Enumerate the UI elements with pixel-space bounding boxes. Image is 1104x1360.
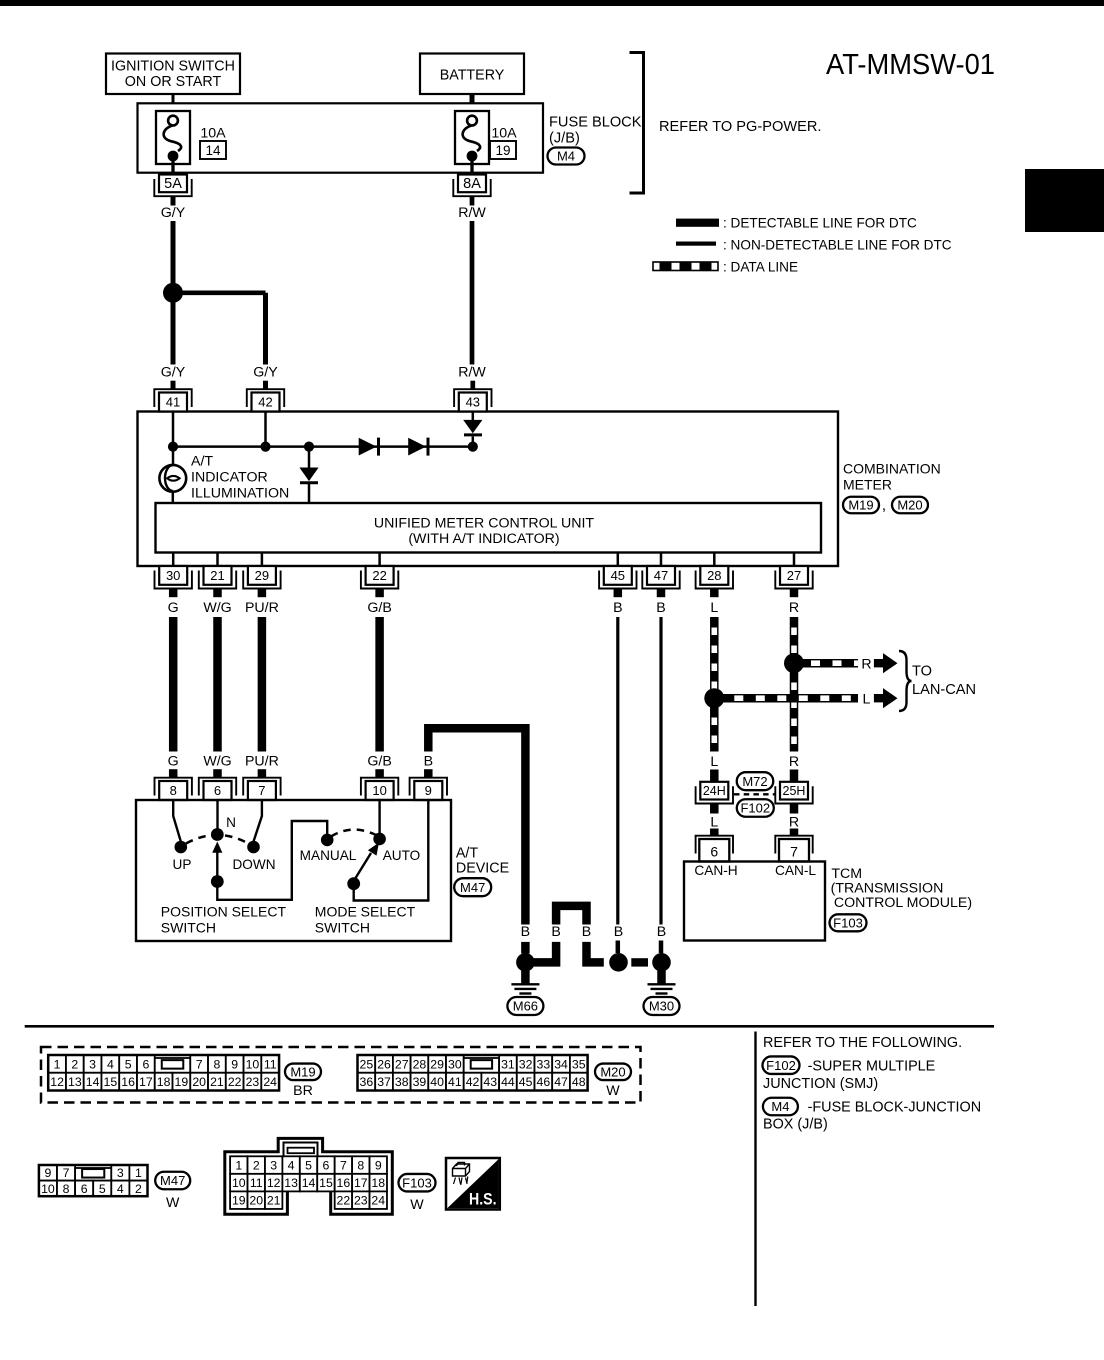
svg-text:G/Y: G/Y [161,365,186,381]
svg-text:41: 41 [448,1075,462,1089]
svg-text:17: 17 [354,1176,368,1190]
svg-text:M30: M30 [649,999,674,1014]
TCM pin 7 [790,829,799,837]
svg-text:M4: M4 [771,1099,789,1114]
svg-text:3: 3 [89,1057,96,1071]
connector M72 oval [737,772,774,790]
svg-text:2: 2 [135,1182,142,1196]
wire pin6 to N [216,800,218,829]
svg-text:N: N [226,815,236,830]
diode at pin 43 [472,412,475,421]
fuse 10A 14 [156,111,190,164]
svg-text:24: 24 [263,1075,277,1089]
wire B pin47 [659,617,662,925]
svg-text:48: 48 [572,1075,586,1089]
H.S. mark [446,1158,500,1210]
svg-text:36: 36 [360,1075,374,1089]
svg-text:R/W: R/W [458,365,486,381]
pin 22 [361,571,398,589]
svg-text:16: 16 [121,1075,135,1089]
svg-text:B: B [656,600,665,616]
svg-text:8: 8 [357,1159,364,1173]
svg-text:CONTROL MODULE): CONTROL MODULE) [834,895,972,911]
svg-text:15: 15 [104,1075,118,1089]
svg-text:39: 39 [413,1075,427,1089]
svg-text:9: 9 [45,1166,52,1180]
junction dot L [704,688,724,708]
svg-text:24H: 24H [703,784,726,798]
svg-text:14: 14 [205,143,221,158]
series diode 1 [359,438,377,456]
svg-text:R: R [861,657,871,673]
wire pin8 to UP [173,800,181,842]
svg-text:6: 6 [710,844,718,860]
svg-text:10: 10 [232,1176,246,1190]
legend non-detectable line [676,242,716,246]
staircase bridge [556,906,586,925]
svg-text:MODE SELECT: MODE SELECT [315,904,416,920]
combination meter box [138,412,839,567]
svg-text:G: G [168,600,179,616]
svg-text:F102: F102 [766,1058,796,1073]
junction dots on bus [168,442,178,452]
svg-text:1: 1 [135,1166,142,1180]
svg-text:R: R [789,600,799,616]
svg-text:20: 20 [249,1194,263,1208]
svg-text:9: 9 [425,783,432,798]
pin 28 [696,571,733,589]
connector 8A [453,179,490,196]
svg-text:4: 4 [117,1182,124,1196]
svg-text:W/G: W/G [203,754,231,770]
svg-text:18: 18 [371,1176,385,1190]
svg-text:G: G [168,754,179,770]
connector M20 oval [595,1064,631,1081]
svg-text:M19: M19 [290,1064,315,1079]
pin 9 [424,769,433,778]
svg-text:10: 10 [246,1057,260,1071]
svg-text:JUNCTION (SMJ): JUNCTION (SMJ) [763,1076,878,1092]
svg-text:45: 45 [519,1075,533,1089]
svg-text:BATTERY: BATTERY [440,68,505,84]
svg-text:INDICATOR: INDICATOR [191,470,268,486]
ignition switch box [106,54,240,95]
connector F102 oval [737,799,774,817]
svg-text:-SUPER MULTIPLE: -SUPER MULTIPLE [808,1059,936,1075]
svg-text:3: 3 [270,1159,277,1173]
svg-text:BR: BR [293,1083,313,1099]
pin 8 [169,769,178,778]
svg-text:(TRANSMISSION: (TRANSMISSION [831,881,944,897]
svg-text:7: 7 [340,1159,347,1173]
svg-text:REFER TO THE FOLLOWING.: REFER TO THE FOLLOWING. [763,1035,962,1051]
svg-text:6: 6 [142,1057,149,1071]
mode dashed arc [331,830,376,837]
svg-text:-FUSE BLOCK-JUNCTION: -FUSE BLOCK-JUNCTION [808,1100,982,1116]
ground junction M66 [516,953,535,972]
svg-text:CAN-H: CAN-H [694,863,737,878]
svg-text:10A: 10A [491,126,517,142]
svg-text:22: 22 [228,1075,242,1089]
meter internal pin leads [172,553,175,567]
svg-text:B: B [657,924,666,940]
svg-text:W/G: W/G [203,600,231,616]
connector M19 grid [48,1055,66,1073]
junction dot R [784,653,804,673]
svg-text:7: 7 [790,844,798,860]
svg-text:M66: M66 [513,999,538,1014]
pin 6 [213,769,222,778]
pin 47 [642,571,679,589]
svg-text:ILLUMINATION: ILLUMINATION [191,486,289,502]
svg-text:UNIFIED METER CONTROL UNIT: UNIFIED METER CONTROL UNIT [374,516,595,532]
svg-text:TO: TO [912,664,932,680]
page top rule [0,0,1104,6]
svg-text:27: 27 [395,1057,409,1071]
svg-text:6: 6 [81,1182,88,1196]
wire fuse 19 to 8A [470,158,473,176]
A/T device box [136,800,451,941]
svg-text:28: 28 [413,1057,427,1071]
svg-text:1: 1 [54,1057,61,1071]
M4 oval note [763,1098,798,1116]
connector M47 label oval [155,1172,190,1190]
F102 oval note [763,1056,800,1074]
svg-text:COMBINATION: COMBINATION [843,461,941,477]
wire G/Y branch to 42 [182,290,266,295]
svg-text:F102: F102 [740,801,770,816]
svg-text:40: 40 [430,1075,444,1089]
connector M4 oval [548,148,585,165]
svg-text:M72: M72 [742,774,767,789]
svg-text:10A: 10A [200,126,226,142]
svg-text:L: L [863,692,871,708]
connector M47 oval [454,878,491,896]
pin 45 [599,571,636,589]
svg-text:6: 6 [214,783,221,798]
svg-text:REFER TO PG-POWER.: REFER TO PG-POWER. [659,119,821,135]
svg-text:14: 14 [302,1176,316,1190]
data line L lower [710,707,719,752]
svg-text:16: 16 [337,1176,351,1190]
staircase feet [530,942,556,963]
svg-text:W: W [166,1195,180,1211]
wire G/B [375,617,384,752]
legend detectable line [676,219,719,227]
svg-text:G/B: G/B [367,754,391,770]
svg-text:SWITCH: SWITCH [315,920,370,936]
mode wiper arrow [354,853,371,881]
svg-text:LAN-CAN: LAN-CAN [912,682,976,698]
svg-text:CAN-L: CAN-L [775,863,816,878]
svg-text:2: 2 [71,1057,78,1071]
connector 5A [154,179,191,196]
junction wire45 [609,953,628,972]
brace to LAN-CAN [899,651,912,711]
wire B elbow from pin 9 [428,728,525,924]
svg-text:29: 29 [430,1057,444,1071]
svg-text:5: 5 [125,1057,132,1071]
svg-text:42: 42 [258,394,272,409]
fuse block J/B box [138,103,544,172]
connector F103 oval [830,914,867,931]
svg-text:9: 9 [231,1057,238,1071]
svg-text:22: 22 [337,1194,351,1208]
H.S. connector icon [453,1164,470,1176]
svg-text:41: 41 [166,394,180,409]
svg-text:46: 46 [537,1075,551,1089]
svg-text:H.S.: H.S. [469,1190,497,1208]
wire ignition to fuse block [172,94,175,117]
separator rule [25,1025,994,1028]
svg-text:23: 23 [354,1194,368,1208]
svg-text:POSITION SELECT: POSITION SELECT [161,904,287,920]
connector 24H [696,786,733,803]
connector M20 grid [358,1055,376,1073]
svg-text:G/Y: G/Y [253,365,278,381]
svg-text:8A: 8A [463,176,481,192]
wire pin10 to AUTO [378,800,380,834]
svg-text:R: R [789,815,799,831]
svg-text:G/B: G/B [367,600,391,616]
svg-text:1: 1 [235,1159,242,1173]
connector 25H [775,786,812,803]
svg-text:2: 2 [253,1159,260,1173]
svg-text:10: 10 [372,783,386,798]
svg-text:19: 19 [175,1075,189,1089]
svg-text:W: W [410,1197,424,1213]
dash between junctions [631,958,648,966]
svg-text:AUTO: AUTO [383,848,421,863]
UP contact [175,841,188,854]
pin 42 [263,381,268,390]
mode common contact [347,877,360,890]
wire battery to fuse block [470,94,475,117]
svg-text:38: 38 [395,1075,409,1089]
svg-text:(WITH A/T INDICATOR): (WITH A/T INDICATOR) [408,531,559,547]
position select dashed arc [186,835,249,844]
connector M19 oval [843,497,879,514]
svg-text:25H: 25H [783,784,806,798]
svg-text:43: 43 [466,394,480,409]
svg-text:B: B [424,754,433,770]
svg-text:MANUAL: MANUAL [300,848,357,863]
pin 21 [199,571,236,589]
svg-text:29: 29 [255,568,269,583]
svg-text:7: 7 [196,1057,203,1071]
svg-text:5A: 5A [164,176,182,192]
svg-text:B: B [582,924,591,940]
svg-text:9: 9 [375,1159,382,1173]
svg-text:21: 21 [210,1075,224,1089]
svg-text:33: 33 [537,1057,551,1071]
position common link to MANUAL [217,821,327,900]
svg-text:6: 6 [323,1159,330,1173]
svg-text:PU/R: PU/R [245,600,279,616]
svg-text:19: 19 [232,1194,246,1208]
svg-text:PU/R: PU/R [245,754,279,770]
svg-text:,: , [882,497,886,514]
svg-text:23: 23 [246,1075,260,1089]
junction dot G/Y [163,283,183,303]
MANUAL contact [321,834,334,847]
ground symbol M66 [521,971,530,984]
svg-text:L: L [710,815,718,831]
ground M66 oval [507,997,543,1015]
mode common link to pin 9 [354,800,429,901]
wire PU/R [258,617,267,752]
SMJ dashed link [734,793,775,795]
svg-text:25: 25 [360,1057,374,1071]
unified meter control unit box [156,503,822,553]
svg-text:BOX (J/B): BOX (J/B) [763,1117,828,1133]
svg-text:METER: METER [843,477,892,493]
data line L upper [710,617,719,689]
svg-text:14: 14 [86,1075,100,1089]
series diode 2 [408,438,426,456]
svg-text:42: 42 [466,1075,480,1089]
svg-text:24: 24 [371,1194,385,1208]
svg-text:B: B [551,924,560,940]
svg-text:30: 30 [448,1057,462,1071]
svg-text:B: B [521,924,530,940]
svg-text:IGNITION SWITCH: IGNITION SWITCH [111,59,235,75]
svg-text:34: 34 [554,1057,568,1071]
battery box [420,54,524,95]
svg-text:UP: UP [173,857,192,872]
svg-text:37: 37 [377,1075,391,1089]
wire W/G [213,617,222,752]
stub into 24H [710,770,719,782]
A/T indicator lamp [172,492,175,504]
data line L horizontal [723,694,858,703]
svg-text:11: 11 [264,1057,277,1071]
wire R/W from 8A [470,196,475,205]
svg-text:28: 28 [707,568,721,583]
svg-text:R/W: R/W [458,205,486,221]
position wiper arrow [216,852,218,879]
svg-text:12: 12 [50,1075,64,1089]
svg-text:35: 35 [572,1057,586,1071]
svg-text:18: 18 [157,1075,171,1089]
svg-text:AT-MMSW-01: AT-MMSW-01 [826,49,995,81]
svg-text:21: 21 [210,568,224,583]
svg-text:43: 43 [483,1075,497,1089]
pin 43 [470,381,475,390]
svg-text:10: 10 [41,1182,55,1196]
svg-text:26: 26 [377,1057,391,1071]
svg-text:R: R [789,754,799,770]
svg-text:DOWN: DOWN [232,857,275,872]
svg-text:30: 30 [166,568,180,583]
ground junction M30 [652,953,671,972]
fuse 10A 19 [455,111,489,164]
legend data line [653,262,718,271]
pin 29 [243,571,280,589]
svg-text:31: 31 [501,1057,515,1071]
svg-text:G/Y: G/Y [161,205,186,221]
position common contact [211,875,224,888]
svg-text:4: 4 [288,1159,295,1173]
svg-text:M20: M20 [600,1064,625,1079]
svg-text:8: 8 [170,783,177,798]
svg-text:3: 3 [117,1166,124,1180]
data line R horizontal [803,659,859,668]
svg-text:M19: M19 [848,498,873,513]
svg-text:: DATA LINE: : DATA LINE [723,260,798,275]
fuse block bracket [630,53,644,194]
svg-text:W: W [606,1083,620,1099]
ground M30 oval [644,997,680,1015]
svg-text:12: 12 [267,1176,281,1190]
svg-text:47: 47 [554,1075,568,1089]
svg-text:M47: M47 [160,1173,185,1188]
dashed connector box [41,1047,641,1103]
svg-text:22: 22 [372,568,386,583]
AUTO contact [373,833,386,846]
svg-text:44: 44 [501,1075,515,1089]
pin 30 [155,571,192,589]
N contact [211,828,224,841]
svg-text:11: 11 [250,1176,263,1190]
svg-text:19: 19 [495,143,510,158]
svg-text:M47: M47 [460,880,485,895]
wire fuse 14 to 5A [171,158,174,176]
svg-text:: NON-DETECTABLE LINE FOR DTC: : NON-DETECTABLE LINE FOR DTC [723,238,952,253]
pin 41 [171,381,176,390]
connector F103 grid shell [225,1138,392,1214]
svg-text:F103: F103 [402,1175,432,1190]
wire G/Y from 5A [171,196,176,205]
svg-text:M20: M20 [897,498,922,513]
svg-text:L: L [710,754,718,770]
vertical divider [754,1032,756,1307]
wire B pin45 [616,617,619,925]
svg-text:13: 13 [284,1176,298,1190]
svg-text:: DETECTABLE LINE FOR DTC: : DETECTABLE LINE FOR DTC [723,216,917,231]
svg-text:13: 13 [68,1075,82,1089]
svg-text:DEVICE: DEVICE [456,861,509,877]
svg-text:7: 7 [258,783,265,798]
stub into 25H [790,770,799,782]
wire pin7 to DOWN [254,800,262,842]
svg-text:32: 32 [519,1057,533,1071]
stub below 25H [790,804,799,814]
svg-text:8: 8 [63,1182,70,1196]
svg-text:5: 5 [305,1159,312,1173]
svg-text:FUSE BLOCK: FUSE BLOCK [549,115,642,131]
svg-text:SWITCH: SWITCH [161,920,216,936]
data line R upper [790,617,799,654]
pin 10 [375,769,384,778]
TCM box [684,862,825,941]
svg-text:ON OR START: ON OR START [125,74,222,90]
connector M47 grid [39,1165,57,1181]
svg-text:M4: M4 [557,149,575,164]
svg-text:47: 47 [654,568,668,583]
svg-text:27: 27 [787,568,801,583]
svg-text:5: 5 [99,1182,106,1196]
svg-text:L: L [710,600,718,616]
DOWN contact [247,841,260,854]
svg-text:A/T: A/T [191,454,213,470]
stub below 24H [710,804,719,814]
svg-text:A/T: A/T [456,846,479,862]
svg-text:20: 20 [192,1075,206,1089]
svg-text:17: 17 [139,1075,153,1089]
svg-text:7: 7 [63,1166,70,1180]
svg-text:TCM: TCM [831,866,862,882]
